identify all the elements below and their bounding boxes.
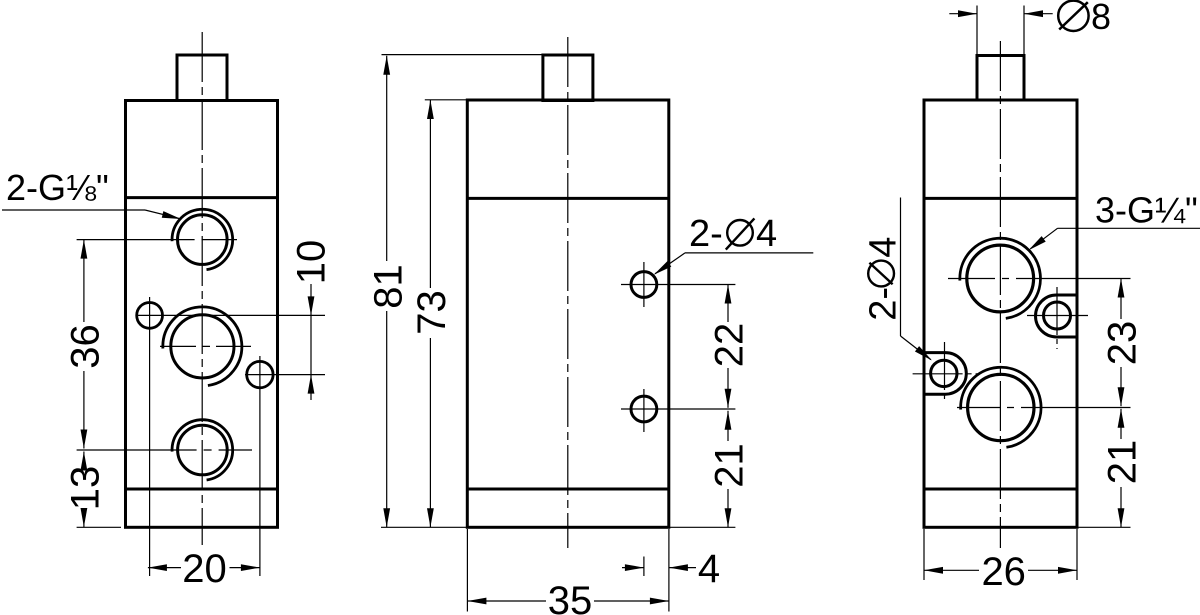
dimension 10 upper arrow (points down) xyxy=(308,296,315,315)
dimension 4 right arrow (points left) xyxy=(669,564,688,571)
label 2-diam4 underline xyxy=(685,252,813,254)
dimension 21R line upper segment xyxy=(1120,409,1122,439)
dimension 73 line upper segment xyxy=(429,100,431,288)
port circle C1 top (G1/8) inner xyxy=(178,215,228,265)
dimension 13 bottom extension line xyxy=(77,526,121,528)
C2 horizontal centerline xyxy=(160,345,251,347)
C3 horizontal centerline + 36/13 extension xyxy=(77,449,252,451)
label 2-G1/8 leader arrowhead xyxy=(162,211,182,222)
dimension 4 right tail line xyxy=(669,567,696,569)
dimension 13 line lower segment xyxy=(83,509,85,527)
pocket P2 bottom line xyxy=(924,393,946,396)
dimension 21 bottom arrow xyxy=(725,508,732,527)
svg-text:36: 36 xyxy=(64,324,108,369)
dimension 26 left extension line xyxy=(923,529,925,580)
left view vertical centerline xyxy=(201,32,203,545)
diam8 left arrow (points right) xyxy=(958,10,977,17)
middle view lower band line xyxy=(467,488,669,491)
label 2-G1/8 leader line xyxy=(145,210,180,219)
label rotated 2-diam4 leader line xyxy=(901,336,931,360)
dimension 81 line lower segment xyxy=(386,311,388,527)
pocket P2 arc xyxy=(946,353,967,395)
H2 extension line down to 4-dim xyxy=(643,557,645,577)
port circle C1 thread arc xyxy=(172,209,233,269)
label 2-diam4 symbol circle xyxy=(727,220,753,246)
hole H2 (lower 4mm) xyxy=(631,396,657,422)
dimension 10 lower arrow (points up) xyxy=(308,375,315,394)
pocket P1 top line (right side) xyxy=(1057,294,1078,297)
dimension 13 top arrow xyxy=(81,452,88,471)
label 2-diam4 symbol slash xyxy=(726,218,755,249)
label 3-G1/4 leader line xyxy=(1031,228,1058,248)
dimension 35 right arrow xyxy=(650,598,669,605)
dimension 73 top extension line xyxy=(425,99,467,101)
P2 horizontal centerline xyxy=(913,373,979,375)
dimension 23 top arrow xyxy=(1118,279,1125,298)
pocket hole P1 circle xyxy=(1044,302,1071,329)
B2 horizontal centerline xyxy=(957,407,1131,409)
hole H1 (upper 4mm) xyxy=(631,272,657,298)
diam8 right tail line xyxy=(1024,13,1053,15)
svg-text:3-G¼": 3-G¼" xyxy=(1095,190,1198,231)
port circle C3 thread arc xyxy=(172,420,233,480)
label 2-diam4 leader line xyxy=(655,253,685,274)
dimension 21 top arrow xyxy=(725,411,732,430)
port circle B2 bottom (G1/4) inner xyxy=(968,374,1034,440)
svg-text:2-G⅛": 2-G⅛" xyxy=(6,167,109,208)
dimension 35 left arrow xyxy=(467,598,486,605)
P2 vertical centerline xyxy=(944,342,946,403)
middle view vertical centerline xyxy=(567,37,569,548)
label rotated 2-diam4 leader arrowhead xyxy=(915,346,934,363)
dimension 13 line upper segment xyxy=(83,452,85,468)
H1 vertical centerline xyxy=(643,262,645,307)
diam8 right stem extension line xyxy=(1023,6,1025,56)
dimension 10 upper tail line xyxy=(310,284,312,315)
P1 vertical centerline xyxy=(1056,287,1058,349)
diam8 right arrow (points left) xyxy=(1024,10,1043,17)
label 3-G1/4 underline xyxy=(1058,227,1200,229)
right view body outline xyxy=(924,100,1077,527)
dimension 36 bottom arrow xyxy=(81,430,88,449)
dimension 22 line upper segment xyxy=(727,285,729,323)
dimension 81/73 bottom extension line xyxy=(381,526,467,528)
right view vertical centerline xyxy=(999,41,1001,548)
small hole S1 (upper-left 4mm) xyxy=(137,303,163,329)
port circle C2 middle inner xyxy=(171,315,234,378)
svg-text:21: 21 xyxy=(1101,440,1145,485)
dimension 4 left tail line xyxy=(622,567,644,569)
label text rotated 2-diam4 right view xyxy=(863,237,905,321)
dimension 81 bottom arrow xyxy=(383,508,390,527)
dimension 21R line lower segment xyxy=(1120,487,1122,527)
small hole S2 (lower-right 4mm) xyxy=(247,361,273,387)
H2 horizontal centerline + 22/21 extension xyxy=(621,408,735,410)
dimension 36 line lower segment xyxy=(83,371,85,449)
pocket P1 arc xyxy=(1036,295,1057,337)
label rotated 2-diam4 underline xyxy=(900,198,902,337)
dimension 73 line lower segment xyxy=(429,338,431,527)
middle view upper division line xyxy=(467,197,669,200)
right view upper division line xyxy=(924,197,1077,200)
dimension 13 bottom arrow xyxy=(81,508,88,527)
dimension 22 bottom arrow xyxy=(725,389,732,408)
P1 horizontal centerline xyxy=(1027,315,1088,317)
S1 horizontal centerline + 10 extension xyxy=(137,314,325,316)
dimension 36 top arrow xyxy=(81,240,88,259)
dimension 26 line right segment xyxy=(1028,569,1077,571)
S2 horizontal centerline + 10 extension xyxy=(245,374,325,376)
dimension 81 line upper segment xyxy=(386,56,388,261)
diam8 left tail line xyxy=(949,13,977,15)
dimension 81 top extension line xyxy=(382,54,543,56)
svg-text:73: 73 xyxy=(410,290,454,335)
svg-text:13: 13 xyxy=(64,466,108,511)
dimension 10 lower tail line xyxy=(310,375,312,400)
dimension 35 line left segment xyxy=(467,600,546,602)
dimension 23 line lower segment xyxy=(1120,367,1122,406)
pocket P2 top line (left side) xyxy=(924,351,946,354)
svg-text:2-: 2- xyxy=(863,287,905,321)
diam8 left stem extension line xyxy=(976,6,978,56)
B1 horizontal centerline xyxy=(948,278,1131,280)
svg-text:8: 8 xyxy=(1091,0,1111,37)
diam8 symbol circle xyxy=(1058,1,1088,31)
dimension 20 line left segment xyxy=(148,567,181,569)
dimension 81 top arrow xyxy=(383,56,390,75)
svg-text:10: 10 xyxy=(290,240,334,285)
left view lower band line xyxy=(126,488,278,491)
svg-text:26: 26 xyxy=(981,550,1026,594)
dimension 20 line right segment xyxy=(230,567,260,569)
dimension 35 left extension line xyxy=(466,529,468,612)
left view upper division line xyxy=(126,196,278,199)
label 3-G1/4 leader arrowhead xyxy=(1026,236,1045,253)
svg-text:4: 4 xyxy=(863,237,905,258)
dimension 36 line upper segment xyxy=(83,240,85,322)
dimension 73 bottom arrow xyxy=(427,508,434,527)
svg-text:21: 21 xyxy=(708,443,752,488)
right view stem rectangle xyxy=(977,56,1024,101)
middle view body outline xyxy=(467,100,669,527)
svg-text:81: 81 xyxy=(366,264,410,309)
H1 horizontal centerline + 22 extension xyxy=(621,284,735,286)
dimension 21 line lower segment xyxy=(727,489,729,527)
dimension 10 connector line xyxy=(310,315,312,374)
dimension 21R bottom extension line xyxy=(1077,526,1131,528)
dimension 26 right arrow xyxy=(1058,567,1077,574)
dimension 20 left arrow xyxy=(148,564,167,571)
C1 horizontal centerline + 36 top extension xyxy=(77,239,237,241)
S1 vertical centerline + 20 extension xyxy=(149,297,151,576)
dimension 21R bottom arrow xyxy=(1118,508,1125,527)
port circle B2 thread arc xyxy=(961,367,1041,447)
dimension 20 right arrow xyxy=(241,564,260,571)
dimension 4 left arrow (points right) xyxy=(625,564,644,571)
dimension 22 top arrow xyxy=(725,285,732,304)
right view lower band line xyxy=(924,488,1077,491)
dimension 35 line right segment xyxy=(594,600,669,602)
label 2-diam4 leader arrowhead xyxy=(652,261,671,277)
svg-text:20: 20 xyxy=(182,547,227,591)
svg-text:4: 4 xyxy=(698,547,720,591)
dimension 21 bottom extension line xyxy=(669,526,736,528)
S2 vertical centerline + 20 extension xyxy=(259,356,261,576)
port circle B1 top (G1/4) inner xyxy=(967,245,1034,312)
dimension 26 left arrow xyxy=(924,567,943,574)
H2 vertical centerline + extension to 4-dim xyxy=(643,389,645,432)
svg-text:23: 23 xyxy=(1101,321,1145,366)
svg-text:4: 4 xyxy=(756,213,777,255)
dimension 22 line lower segment xyxy=(727,368,729,408)
left view stem rectangle xyxy=(177,55,227,101)
svg-text:2-: 2- xyxy=(689,213,723,255)
dimension 23 bottom arrow xyxy=(1118,387,1125,406)
label 2-G1/8 underline xyxy=(2,209,145,211)
pocket hole P2 circle xyxy=(931,360,957,386)
port circle C2 thread arc xyxy=(163,307,242,386)
dimension 26 right extension line xyxy=(1076,529,1078,580)
dimension 21R top arrow xyxy=(1118,409,1125,428)
dimension 26 line left segment xyxy=(924,569,979,571)
pocket P1 bottom line xyxy=(1057,336,1078,339)
diam8 symbol slash xyxy=(1059,2,1088,29)
left view body outline xyxy=(126,101,278,528)
dimension 73 top arrow xyxy=(427,100,434,119)
svg-text:35: 35 xyxy=(548,579,593,615)
port circle B1 thread arc xyxy=(960,238,1041,318)
dimension 35/4 right extension line xyxy=(668,529,670,612)
dimension 23 line upper segment xyxy=(1120,279,1122,320)
dimension 21 line upper segment xyxy=(727,411,729,441)
svg-text:22: 22 xyxy=(708,323,752,368)
port circle C3 bottom inner xyxy=(178,425,228,475)
middle view stem rectangle xyxy=(543,55,593,101)
